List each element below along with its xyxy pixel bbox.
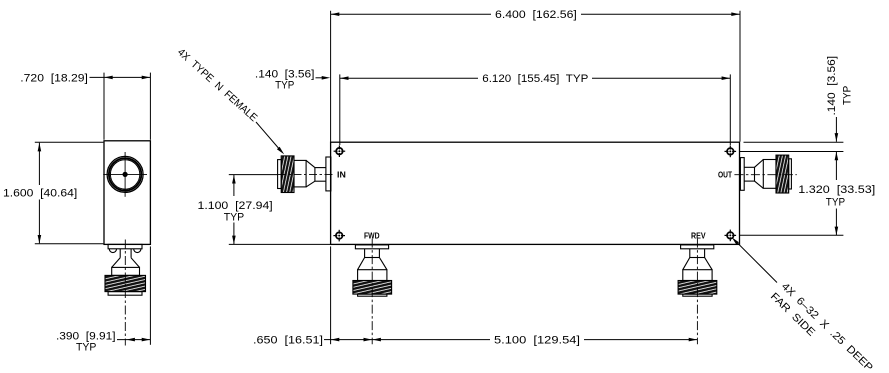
IN connector flange bbox=[326, 157, 331, 191]
N connector face outer circle bbox=[107, 156, 143, 192]
svg-text:6.120 [155.45] TYP: 6.120 [155.45] TYP bbox=[482, 73, 588, 85]
screw hole top-left bbox=[334, 145, 346, 157]
OUT centerline bbox=[734, 174, 796, 176]
dim .720 extension line right bbox=[149, 73, 151, 140]
dim 6.400 line right segment bbox=[581, 13, 740, 15]
OUT connector flange bbox=[740, 158, 744, 191]
connector centerline bbox=[124, 240, 126, 346]
dim 1.100 bottom extension line bbox=[229, 243, 330, 245]
FWD connector bottom ring bbox=[358, 294, 387, 296]
screw hole bottom-right bbox=[725, 230, 737, 242]
dim 1.100 line upper segment bbox=[233, 175, 235, 196]
dim 6.400 extension line left bbox=[330, 11, 332, 142]
svg-text:IN: IN bbox=[337, 169, 346, 179]
dim 6.120 extension line left bbox=[339, 74, 341, 145]
OUT connector taper bottom bbox=[755, 181, 764, 188]
dim 1.600 extension line bottom bbox=[35, 243, 104, 245]
dim 1.100 line lower segment bbox=[233, 223, 235, 245]
FWD connector body cylinder bbox=[358, 270, 387, 281]
svg-text:TYP: TYP bbox=[842, 86, 854, 105]
top-right hole center extension bbox=[740, 151, 843, 153]
N connector center pin bbox=[123, 172, 128, 177]
neck right line bbox=[130, 249, 132, 258]
dim 1.100 top extension line bbox=[229, 174, 278, 176]
dim .650 left arrow bbox=[331, 338, 340, 342]
svg-text:6.400 [162.56]: 6.400 [162.56] bbox=[495, 9, 577, 21]
dim 1.600 line lower segment bbox=[38, 200, 40, 244]
dim .140 right vertical stub bbox=[835, 117, 837, 142]
svg-text:1.100 [27.94]: 1.100 [27.94] bbox=[198, 200, 273, 212]
FWD connector flange bbox=[355, 245, 388, 249]
FWD connector neck left bbox=[364, 249, 366, 258]
REV connector bottom ring bbox=[683, 294, 712, 296]
dim 6.120 line right segment bbox=[592, 77, 730, 79]
dim .720 extension line left bbox=[103, 73, 105, 140]
dim 1.100 up arrow bbox=[232, 175, 236, 184]
REV centerline bbox=[696, 239, 698, 345]
N connector face middle circle bbox=[109, 158, 141, 190]
IN connector neck bottom bbox=[315, 180, 326, 182]
IN connector taper bottom bbox=[306, 181, 315, 187]
body top edge extension right bbox=[744, 141, 844, 143]
dim 6.400 line left segment bbox=[331, 13, 491, 15]
REV connector neck end bbox=[690, 257, 705, 259]
svg-text:.650 [16.51]: .650 [16.51] bbox=[253, 334, 323, 346]
dim 6.120 line left segment bbox=[340, 77, 478, 79]
dim 5.100 right arrow bbox=[689, 338, 698, 342]
svg-text:TYP: TYP bbox=[275, 79, 294, 91]
IN connector body cylinder bbox=[294, 160, 306, 187]
REV connector threads bbox=[678, 281, 717, 295]
dim 1.600 down arrow bbox=[38, 235, 42, 244]
svg-text:4X 6–32 X .25 DEEP: 4X 6–32 X .25 DEEP bbox=[779, 281, 875, 373]
svg-text:TYP: TYP bbox=[826, 197, 845, 209]
dim .140 top-left stub line bbox=[316, 77, 324, 79]
main body outline bbox=[331, 142, 740, 244]
body left edge extension down bbox=[330, 246, 332, 344]
dim 1.100 down arrow bbox=[232, 236, 236, 245]
dim .390 left arrow bbox=[126, 338, 134, 342]
IN connector threads bbox=[281, 156, 294, 193]
leader line to IN threads bbox=[256, 122, 281, 151]
FWD centerline bbox=[371, 239, 373, 345]
IN connector neck top bbox=[315, 167, 326, 169]
dim .720 right arrow bbox=[142, 76, 151, 80]
left view bottom connector flange bbox=[108, 244, 142, 248]
svg-text:OUT: OUT bbox=[718, 170, 733, 180]
bottom-right hole center extension bbox=[740, 234, 843, 236]
dim .140 right down arrow bbox=[835, 133, 839, 142]
svg-text:1.320 [33.53]: 1.320 [33.53] bbox=[798, 184, 875, 196]
svg-text:TYP: TYP bbox=[76, 341, 96, 353]
dim 6.400 right arrow bbox=[731, 12, 740, 16]
dim 6.120 extension line right bbox=[729, 74, 731, 145]
N connector face inner circle bbox=[110, 160, 139, 189]
dim 5.100 left arrow bbox=[372, 338, 381, 342]
dim .390 right arrow bbox=[142, 338, 151, 342]
OUT connector neck top bbox=[744, 166, 754, 168]
flange left shoulder arc bbox=[109, 249, 116, 253]
leader line from bottom-right hole bbox=[734, 239, 778, 283]
crosshair horizontal bbox=[103, 173, 147, 175]
OUT connector neck end bbox=[754, 167, 756, 181]
flange right shoulder arc bbox=[134, 249, 141, 253]
leader arrowhead at hole bbox=[732, 237, 739, 244]
dim 6.120 right arrow bbox=[722, 76, 731, 80]
dim 1.320 down arrow bbox=[835, 227, 839, 236]
svg-text:.140 [3.56]: .140 [3.56] bbox=[826, 56, 838, 116]
svg-text:REV: REV bbox=[691, 230, 706, 240]
dim .650 stub from text bbox=[324, 339, 331, 341]
dim 1.600 extension line top bbox=[35, 141, 104, 143]
screw hole bottom-left bbox=[333, 230, 345, 242]
REV connector taper right bbox=[705, 258, 713, 270]
svg-text:4X TYPE N FEMALE: 4X TYPE N FEMALE bbox=[175, 46, 260, 124]
REV connector flange bbox=[681, 245, 714, 249]
dim .390 extension line bbox=[149, 246, 151, 344]
FWD connector threads bbox=[353, 281, 392, 295]
IN centerline bbox=[278, 174, 335, 176]
IN connector taper top bbox=[306, 160, 315, 167]
svg-text:1.600 [40.64]: 1.600 [40.64] bbox=[3, 187, 77, 199]
dim .720 line bbox=[90, 76, 151, 78]
coupling nut threads bbox=[105, 275, 146, 291]
leader arrowhead bbox=[277, 147, 284, 155]
OUT connector end ring bbox=[789, 159, 792, 189]
crosshair vertical bbox=[124, 152, 126, 197]
OUT connector body cylinder bbox=[763, 160, 776, 189]
REV connector neck right bbox=[704, 249, 706, 258]
dim 6.400 extension line right bbox=[739, 11, 741, 142]
FWD connector taper left bbox=[358, 258, 365, 270]
svg-text:.720 [18.29]: .720 [18.29] bbox=[20, 72, 88, 84]
FWD connector taper right bbox=[379, 258, 387, 270]
svg-text:TYP: TYP bbox=[224, 211, 245, 223]
dim .650 right arrow bbox=[364, 338, 373, 342]
left view body outline bbox=[104, 141, 150, 245]
taper left line bbox=[112, 258, 121, 268]
screw hole top-right bbox=[725, 146, 737, 158]
REV connector neck left bbox=[689, 249, 691, 258]
dim 1.600 line upper segment bbox=[38, 143, 40, 185]
dim .650 line bbox=[331, 339, 373, 341]
dim 5.100 line left segment bbox=[372, 339, 490, 341]
FWD connector neck end bbox=[365, 257, 380, 259]
dim 1.320 line upper segment bbox=[835, 152, 837, 180]
dim 1.320 up arrow bbox=[835, 152, 839, 161]
connector body cylinder bbox=[112, 267, 140, 275]
dim 6.120 left arrow bbox=[340, 76, 349, 80]
dim .390 line bbox=[117, 339, 150, 341]
IN connector neck end bbox=[314, 168, 316, 182]
REV connector body cylinder bbox=[683, 270, 712, 281]
neck left line bbox=[119, 249, 121, 258]
OUT connector threads bbox=[776, 155, 789, 193]
REV connector taper left bbox=[683, 258, 690, 270]
dim 1.320 line lower segment bbox=[835, 209, 837, 236]
FWD connector neck right bbox=[378, 249, 380, 258]
IN connector end ring bbox=[278, 160, 282, 189]
taper right line bbox=[131, 258, 139, 268]
dim 5.100 line right segment bbox=[584, 339, 697, 341]
dim 6.400 left arrow bbox=[331, 12, 340, 16]
dim .140 top-left arrow bbox=[322, 76, 331, 80]
svg-text:5.100 [129.54]: 5.100 [129.54] bbox=[494, 334, 580, 346]
dim 1.600 up arrow bbox=[38, 143, 42, 152]
OUT connector neck bottom bbox=[744, 180, 754, 182]
dim .720 left arrow bbox=[104, 76, 113, 80]
bottom ring bbox=[108, 292, 142, 296]
OUT connector taper top bbox=[755, 160, 764, 168]
